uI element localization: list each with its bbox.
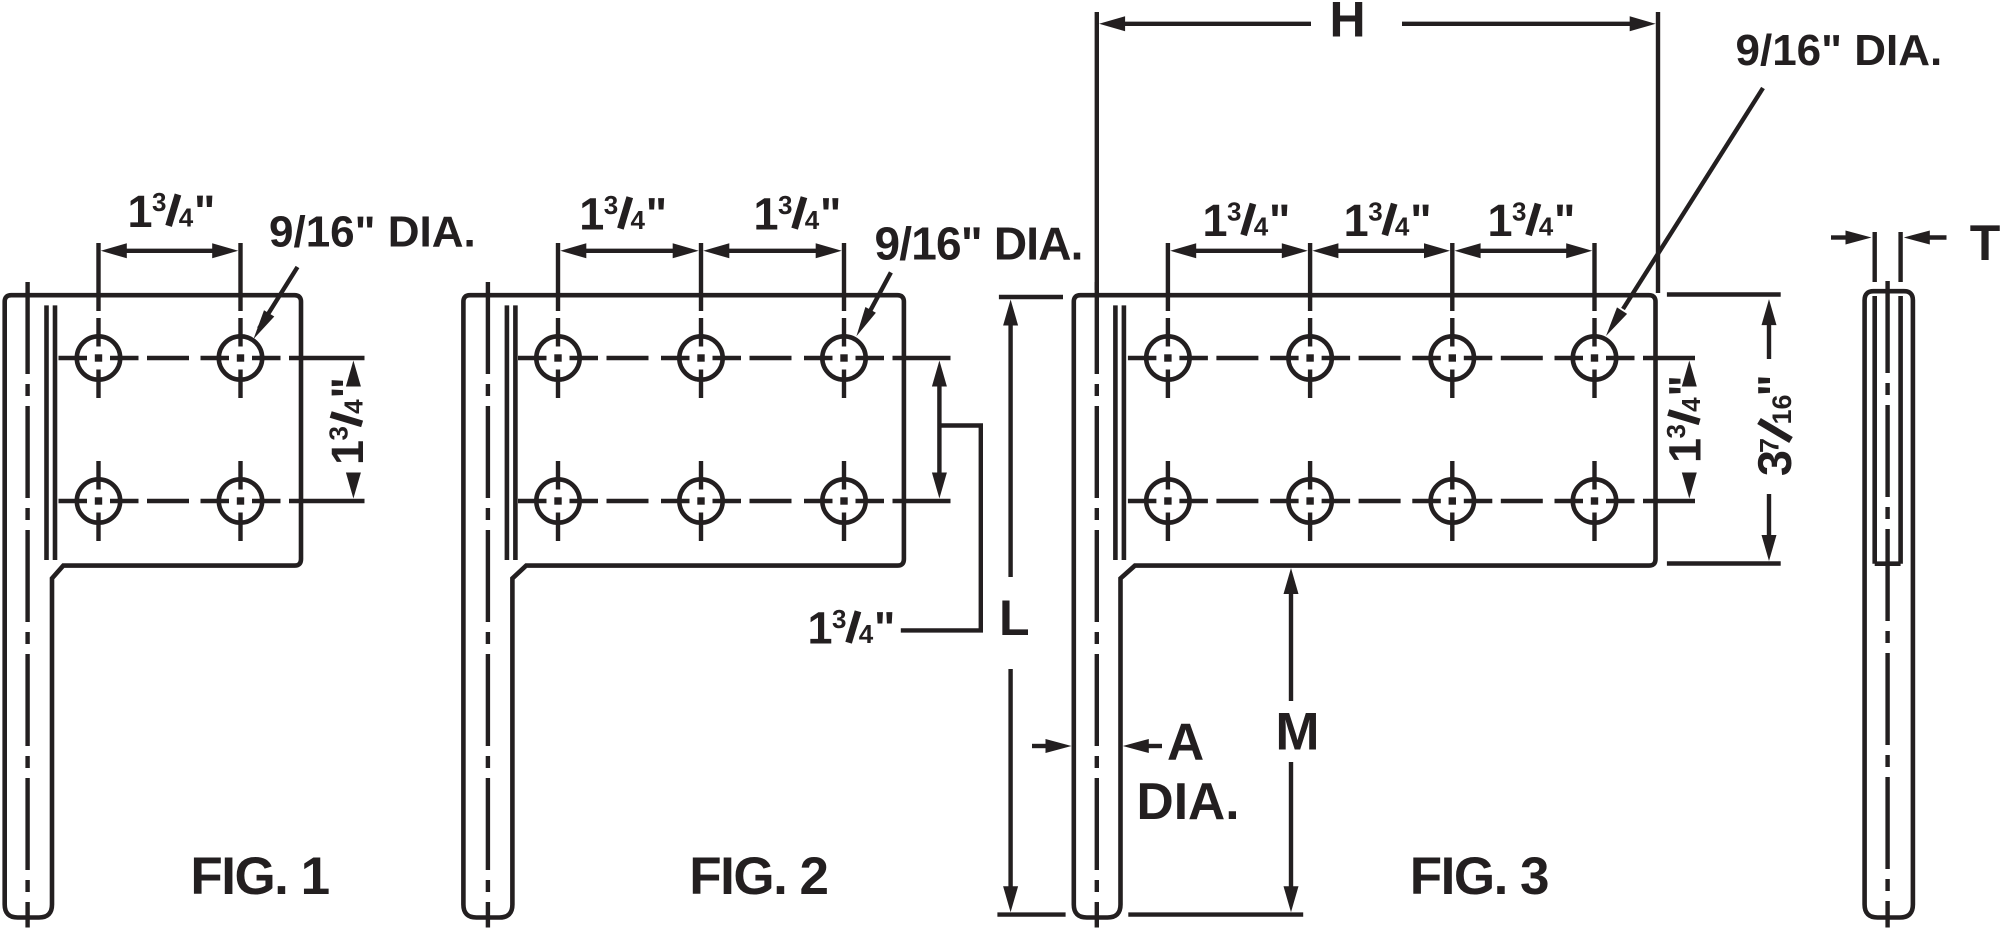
hole FIG2 r2c1	[536, 479, 579, 522]
svg-text:3: 3	[323, 426, 353, 440]
svg-text:M: M	[1275, 703, 1319, 762]
svg-text:": "	[194, 186, 215, 237]
dim line FIG2 spans	[560, 243, 586, 258]
svg-text:4: 4	[1254, 212, 1269, 242]
hole FIG1 r1c2	[219, 336, 262, 379]
bend lines FIG1	[44, 305, 49, 560]
svg-text:9/16" DIA.: 9/16" DIA.	[875, 218, 1083, 270]
hole FIG2 r2c3	[822, 479, 865, 522]
svg-text:": "	[1269, 195, 1290, 246]
svg-text:1: 1	[807, 603, 832, 654]
svg-text:1: 1	[753, 189, 778, 240]
centerline side view	[1885, 281, 1889, 928]
label FIG1 right 1-3/4	[322, 377, 373, 465]
centerline FIG2 leg	[486, 282, 490, 928]
svg-text:FIG. 1: FIG. 1	[190, 847, 328, 906]
hole FIG3 r2c1	[1146, 479, 1189, 522]
svg-text:": "	[646, 189, 667, 240]
svg-text:": "	[874, 603, 895, 654]
svg-text:1: 1	[322, 440, 373, 465]
dim M bottom extension	[1128, 912, 1303, 916]
label 3-7/16	[1748, 374, 1801, 476]
dim line H	[1099, 16, 1125, 31]
svg-text:16: 16	[1767, 394, 1797, 424]
svg-text:H: H	[1329, 0, 1365, 48]
dim M	[1284, 568, 1299, 594]
svg-text:1: 1	[127, 186, 152, 237]
hole FIG3 r2c2	[1288, 479, 1331, 522]
hole FIG1 r2c2	[219, 479, 262, 522]
svg-text:3: 3	[1368, 196, 1382, 226]
label FIG3 right 1-3/4	[1660, 375, 1711, 463]
svg-text:9/16" DIA.: 9/16" DIA.	[269, 208, 476, 257]
svg-text:3: 3	[152, 187, 166, 217]
svg-text:3: 3	[1512, 196, 1526, 226]
hole FIG3 r1c4	[1573, 336, 1616, 379]
hole FIG2 r2c2	[679, 479, 722, 522]
dim extension lines FIG3	[1166, 243, 1170, 311]
dim FIG1 right 1-3/4	[346, 361, 361, 387]
dim extension lines FIG2	[556, 243, 560, 311]
dim 3-7/16 extensions	[1667, 292, 1781, 296]
dim line FIG1 1-3/4	[101, 243, 127, 258]
hole FIG3 r2c3	[1431, 479, 1474, 522]
bend lines FIG2	[505, 305, 510, 560]
svg-text:4: 4	[859, 619, 874, 649]
bend lines FIG3	[1113, 305, 1118, 560]
row2 dashes FIG2	[607, 499, 649, 503]
dim L	[1003, 300, 1018, 326]
dim extension lines FIG1	[96, 243, 100, 311]
svg-text:1: 1	[579, 189, 604, 240]
dim L extensions	[999, 295, 1063, 299]
svg-text:3: 3	[1227, 196, 1241, 226]
hole FIG1 r2c1	[77, 479, 120, 522]
leader FIG1 9/16	[259, 267, 298, 329]
hole FIG3 r1c3	[1431, 336, 1474, 379]
svg-text:": "	[820, 189, 841, 240]
hole FIG3 r1c1	[1146, 336, 1189, 379]
centerline FIG3 leg	[1095, 282, 1099, 928]
svg-text:4: 4	[1676, 397, 1706, 412]
svg-text:": "	[1748, 374, 1801, 396]
hole FIG2 r1c3	[822, 336, 865, 379]
dim T arrows	[1831, 235, 1846, 239]
centerline FIG1 leg	[25, 282, 29, 928]
svg-text:4: 4	[805, 205, 820, 235]
leader FIG2 9/16	[869, 272, 891, 313]
svg-text:": "	[1410, 195, 1431, 246]
row2 dashes FIG3	[1216, 499, 1258, 503]
svg-text:9/16" DIA.: 9/16" DIA.	[1736, 26, 1943, 75]
hole FIG2 r1c2	[679, 336, 722, 379]
svg-text:1: 1	[1202, 195, 1227, 246]
dim A arrows	[1032, 744, 1046, 748]
svg-text:L: L	[999, 590, 1030, 646]
dim T extensions	[1872, 232, 1876, 282]
svg-text:7: 7	[1755, 438, 1785, 453]
leader FIG3 9/16	[1623, 88, 1763, 309]
row1 dashes FIG2	[607, 356, 649, 360]
svg-text:1: 1	[1660, 438, 1711, 463]
svg-text:3: 3	[1661, 424, 1691, 438]
dim 3-7/16	[1762, 299, 1777, 325]
bracket outline FIG1	[5, 295, 301, 917]
svg-text:": "	[1660, 375, 1711, 396]
row1 dashes FIG3	[1216, 356, 1258, 360]
dim line FIG3 spans	[1170, 243, 1196, 258]
hole FIG3 r2c4	[1573, 479, 1616, 522]
svg-text:4: 4	[1395, 212, 1410, 242]
hole FIG1 r1c1	[77, 336, 120, 379]
svg-text:A: A	[1167, 713, 1204, 771]
svg-text:4: 4	[179, 202, 194, 232]
svg-text:4: 4	[339, 399, 369, 414]
dim FIG2 rows 1-3/4	[932, 361, 947, 387]
svg-text:DIA.: DIA.	[1137, 772, 1240, 830]
side view bar outline	[1865, 291, 1913, 917]
svg-text:1: 1	[1487, 195, 1512, 246]
row1 dashes FIG1	[147, 356, 189, 360]
row2 dashes FIG1	[147, 499, 189, 503]
svg-text:3: 3	[832, 604, 846, 634]
bracket outline FIG3	[1074, 295, 1656, 917]
dim H extension right	[1656, 12, 1660, 293]
svg-text:3: 3	[778, 190, 792, 220]
svg-text:FIG. 3: FIG. 3	[1410, 847, 1548, 906]
svg-text:4: 4	[1539, 212, 1554, 242]
svg-text:3: 3	[604, 190, 618, 220]
svg-text:T: T	[1970, 215, 2000, 271]
side view plate edge	[1872, 296, 1877, 564]
hole FIG2 r1c1	[536, 336, 579, 379]
bracket outline FIG2	[463, 295, 904, 917]
leader FIG2 1-3/4	[901, 426, 981, 631]
svg-text:FIG. 2: FIG. 2	[689, 847, 827, 906]
dim FIG3 right 1-3/4	[1682, 361, 1697, 387]
svg-text:1: 1	[1344, 195, 1369, 246]
svg-text:4: 4	[631, 205, 646, 235]
hole FIG3 r1c2	[1288, 336, 1331, 379]
svg-text:": "	[1554, 195, 1575, 246]
svg-text:": "	[322, 377, 373, 398]
centerline FIG3 ext to H	[1095, 12, 1099, 290]
